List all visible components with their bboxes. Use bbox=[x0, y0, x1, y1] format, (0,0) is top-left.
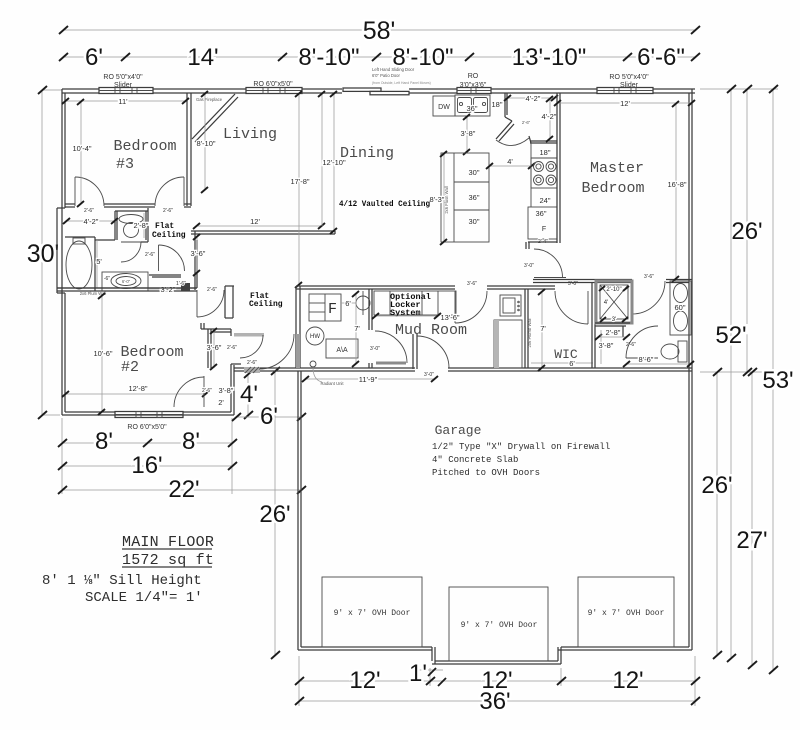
dim 6' horizontal jog bbox=[232, 403, 306, 430]
dim 6' WIC bbox=[531, 359, 593, 368]
top exterior wall bbox=[62, 89, 695, 93]
svg-text:Living: Living bbox=[223, 126, 277, 143]
svg-text:3'-8": 3'-8" bbox=[461, 129, 476, 138]
svg-text:Bedroom: Bedroom bbox=[113, 138, 176, 155]
master toilet bbox=[661, 341, 687, 362]
svg-text:9' x 7' OVH Door: 9' x 7' OVH Door bbox=[588, 609, 665, 618]
svg-text:26': 26' bbox=[731, 218, 762, 245]
svg-text:RO 5'0"x4'0": RO 5'0"x4'0" bbox=[103, 74, 143, 81]
dim 4'-2" pantry horizontal bbox=[504, 94, 558, 103]
svg-text:Slider: Slider bbox=[620, 82, 639, 89]
svg-text:-6": -6" bbox=[104, 276, 110, 282]
svg-text:3'-0": 3'-0" bbox=[370, 346, 380, 352]
svg-text:2x6 Plumb Wall: 2x6 Plumb Wall bbox=[527, 318, 532, 347]
WIC / bath divider wall bbox=[592, 283, 595, 368]
furnace F bbox=[309, 294, 341, 321]
svg-text:#2: #2 bbox=[121, 359, 139, 376]
svg-text:10'-6": 10'-6" bbox=[93, 349, 112, 358]
WIC door bbox=[555, 281, 588, 324]
svg-text:(from Outside, Left Hand Panel: (from Outside, Left Hand Panel Moves) bbox=[372, 81, 431, 85]
bath south wall bbox=[57, 288, 197, 296]
dim 58' top bbox=[59, 17, 700, 45]
svg-text:Dining: Dining bbox=[340, 145, 394, 162]
svg-text:14': 14' bbox=[187, 44, 218, 71]
svg-text:2'-6": 2'-6" bbox=[207, 287, 217, 293]
bedroom2 south exterior wall bbox=[62, 412, 234, 415]
svg-text:RO 5'0"x4'0": RO 5'0"x4'0" bbox=[609, 74, 649, 81]
svg-text:13'-6": 13'-6" bbox=[440, 313, 459, 322]
optional locker system label bbox=[390, 292, 431, 318]
svg-text:4': 4' bbox=[240, 381, 258, 408]
hw tank bbox=[306, 327, 324, 345]
svg-text:30": 30" bbox=[468, 217, 479, 226]
dim 22' bbox=[58, 476, 306, 503]
window master RO 5'0"x4'0" bbox=[597, 88, 653, 94]
svg-text:2'-8": 2'-8" bbox=[606, 328, 621, 337]
dim 26' upper right bbox=[700, 85, 778, 376]
svg-text:3'-6": 3'-6" bbox=[191, 249, 206, 258]
svg-text:16'-8": 16'-8" bbox=[667, 180, 686, 189]
dim 8'-10" fireplace bbox=[196, 91, 215, 193]
dim 16' bbox=[58, 452, 237, 479]
svg-text:1'-6": 1'-6" bbox=[176, 281, 186, 287]
svg-text:27': 27' bbox=[736, 527, 767, 554]
utility door bbox=[370, 331, 407, 363]
svg-text:8'-3": 8'-3" bbox=[430, 195, 445, 204]
dim 10'-6" bedroom2 bbox=[93, 293, 112, 415]
dim 3'-2" bbox=[149, 285, 181, 294]
svg-text:2'-8": 2'-8" bbox=[134, 221, 149, 230]
fridge bbox=[528, 207, 557, 245]
room label bedroom2 bbox=[120, 344, 183, 376]
bath inner door bbox=[121, 242, 141, 262]
floor drain fixture bbox=[356, 291, 370, 315]
svg-text:17'-8": 17'-8" bbox=[290, 177, 309, 186]
right exterior wall bbox=[689, 89, 692, 650]
svg-text:3'-6": 3'-6" bbox=[207, 343, 222, 352]
master south wall bbox=[533, 280, 692, 283]
patio sliding door bbox=[343, 88, 409, 95]
kitchen island bbox=[441, 153, 489, 242]
window living RO 6'0"x5'0" bbox=[246, 88, 302, 94]
svg-text:8': 8' bbox=[95, 428, 113, 455]
garage entry door from mud room bbox=[413, 334, 449, 378]
dim 8'-3" island bbox=[430, 151, 447, 245]
svg-text:6': 6' bbox=[345, 299, 351, 308]
svg-text:10'-4": 10'-4" bbox=[72, 144, 91, 153]
bedroom2 east wall jog bbox=[231, 365, 234, 415]
svg-text:3'-2": 3'-2" bbox=[161, 285, 176, 294]
label RO 5'0x4'0 slider bed3 bbox=[103, 74, 143, 89]
dim 30' left bbox=[27, 86, 62, 419]
toilet (main bath) bbox=[119, 215, 143, 238]
svg-text:22': 22' bbox=[168, 476, 199, 503]
svg-text:12': 12' bbox=[349, 667, 380, 694]
dim 52' right bbox=[715, 85, 746, 662]
left exterior wall bbox=[57, 89, 65, 415]
svg-text:36": 36" bbox=[535, 209, 546, 218]
svg-text:53': 53' bbox=[762, 367, 793, 394]
svg-text:3'0"x3'6": 3'0"x3'6" bbox=[460, 82, 487, 89]
svg-text:4'-2": 4'-2" bbox=[84, 217, 99, 226]
plumbing wall bump bbox=[57, 207, 65, 209]
garage ovh door 2 bbox=[449, 587, 548, 661]
svg-text:5': 5' bbox=[96, 257, 102, 266]
svg-text:8'-10": 8'-10" bbox=[196, 139, 215, 148]
bottom dims 12' 12' 12' bbox=[295, 656, 700, 706]
dim 12' hall bbox=[193, 217, 325, 229]
corridor north wall bbox=[296, 286, 555, 289]
svg-text:1/2" Type "X" Drywall on Firew: 1/2" Type "X" Drywall on Firewall bbox=[432, 442, 610, 452]
svg-text:3'-0": 3'-0" bbox=[424, 372, 434, 378]
svg-text:36": 36" bbox=[466, 104, 477, 113]
dim 2'-8" bbox=[595, 328, 630, 340]
dim 10'-4" bedroom3 bbox=[72, 99, 91, 207]
vanity (main bath) bbox=[102, 272, 148, 291]
svg-text:7': 7' bbox=[354, 324, 360, 333]
svg-text:4" Concrete Slab: 4" Concrete Slab bbox=[432, 455, 518, 465]
svg-text:#3: #3 bbox=[116, 156, 134, 173]
A/A unit bbox=[326, 339, 358, 358]
svg-text:Ceiling: Ceiling bbox=[249, 300, 283, 309]
hall door to bath hallway bbox=[145, 245, 184, 271]
laundry/WIC wall bbox=[525, 289, 532, 368]
label patio door bbox=[372, 67, 431, 85]
svg-text:2': 2' bbox=[218, 398, 224, 407]
svg-text:2'-6": 2'-6" bbox=[163, 208, 173, 214]
svg-text:Slider: Slider bbox=[114, 82, 133, 89]
svg-text:Garage: Garage bbox=[435, 423, 482, 438]
radiant unit bbox=[310, 361, 344, 386]
DW box bbox=[433, 96, 455, 116]
svg-text:18": 18" bbox=[539, 148, 550, 157]
svg-text:26': 26' bbox=[701, 472, 732, 499]
svg-text:2'-6": 2'-6" bbox=[522, 120, 531, 125]
svg-text:26': 26' bbox=[259, 501, 290, 528]
dim 11' bedroom3 bbox=[62, 97, 189, 106]
svg-text:6'0" Patio Door: 6'0" Patio Door bbox=[372, 73, 400, 78]
svg-text:2'-6": 2'-6" bbox=[202, 388, 212, 394]
svg-text:6': 6' bbox=[85, 44, 103, 71]
svg-text:13'-10": 13'-10" bbox=[512, 44, 586, 71]
toilet room walls bbox=[595, 323, 630, 337]
svg-text:Mud Room: Mud Room bbox=[395, 322, 467, 339]
garage west wall bbox=[298, 371, 301, 650]
garage notes bbox=[432, 442, 610, 478]
dim 26' garage left bbox=[259, 367, 290, 659]
svg-text:8': 8' bbox=[182, 428, 200, 455]
dim 6' furnace bbox=[341, 299, 356, 308]
dim row: 6' 14' 8'-10" 8'-10" 13'-10" 6'-6" bbox=[59, 44, 700, 71]
dim 13'-6" mud room bbox=[372, 313, 460, 322]
svg-text:52': 52' bbox=[715, 322, 746, 349]
room label master bedroom bbox=[581, 160, 644, 197]
window kitchen RO 3'0"x3'6" bbox=[457, 88, 491, 94]
master vanity bbox=[670, 281, 691, 335]
svg-text:12': 12' bbox=[620, 99, 630, 108]
svg-text:7': 7' bbox=[540, 324, 546, 333]
svg-text:6'-0": 6'-0" bbox=[122, 279, 131, 284]
linen nook bbox=[149, 275, 190, 291]
bath top walls / toilet alcove bbox=[95, 208, 148, 242]
bedroom3 east wall bbox=[187, 93, 191, 206]
bedroom2 door 2 bbox=[174, 376, 212, 407]
dim 12'-8" bedroom2 bbox=[62, 384, 209, 397]
svg-text:Flat: Flat bbox=[155, 222, 174, 231]
kitchen right counter run bbox=[531, 143, 557, 207]
bedroom2 closet bbox=[201, 323, 264, 368]
svg-text:Ceiling: Ceiling bbox=[152, 231, 186, 240]
svg-text:12'-8": 12'-8" bbox=[128, 384, 147, 393]
kitchen sink bbox=[455, 95, 490, 116]
dim 1' garage jog bbox=[409, 660, 446, 687]
svg-text:Pitched to OVH Doors: Pitched to OVH Doors bbox=[432, 468, 540, 478]
dim 3'-6" hall bbox=[191, 234, 206, 276]
bedroom3 door left bbox=[75, 177, 104, 206]
svg-text:60": 60" bbox=[674, 303, 685, 312]
dim 4' island-stove bbox=[486, 157, 535, 169]
master bath door bbox=[632, 274, 665, 314]
svg-text:Left Hand Sliding Door: Left Hand Sliding Door bbox=[372, 67, 415, 72]
label RO 5'0x4'0 slider master bbox=[609, 74, 649, 89]
svg-text:9' x 7' OVH Door: 9' x 7' OVH Door bbox=[334, 609, 411, 618]
flat ceiling label 2 bbox=[249, 292, 283, 309]
dim 5' tub bbox=[96, 240, 102, 288]
svg-text:2'-6": 2'-6" bbox=[247, 360, 257, 366]
svg-text:3'-6": 3'-6" bbox=[467, 281, 477, 287]
bedroom3 door right bbox=[155, 177, 184, 206]
dim 26' lower right bbox=[701, 368, 732, 659]
svg-text:24": 24" bbox=[539, 196, 550, 205]
svg-text:Master: Master bbox=[590, 160, 644, 177]
svg-text:6': 6' bbox=[260, 403, 278, 430]
svg-text:8'-10": 8'-10" bbox=[298, 44, 359, 71]
bedroom3 south wall bbox=[65, 204, 191, 207]
mud room closet door bbox=[455, 281, 487, 323]
svg-text:16': 16' bbox=[131, 452, 162, 479]
living south wall bbox=[191, 231, 335, 234]
svg-text:System: System bbox=[390, 308, 421, 318]
svg-text:36": 36" bbox=[468, 193, 479, 202]
svg-text:3'-8": 3'-8" bbox=[599, 341, 614, 350]
svg-text:30": 30" bbox=[468, 168, 479, 177]
svg-text:A\A: A\A bbox=[336, 347, 348, 354]
label RO 3'0x3'6 kitchen bbox=[460, 73, 487, 89]
tub bbox=[65, 237, 95, 291]
dim 3'-8" 2' bed2 door bbox=[218, 386, 234, 407]
flat ceiling label 1 bbox=[152, 222, 186, 240]
corner pantry bbox=[496, 93, 557, 146]
svg-text:F: F bbox=[328, 301, 337, 318]
shower bbox=[596, 281, 632, 323]
svg-text:3'-8": 3'-8" bbox=[219, 386, 234, 395]
svg-text:58': 58' bbox=[363, 17, 396, 45]
dim 7' WIC bbox=[538, 289, 546, 371]
dim 16'-8" master bbox=[667, 101, 686, 282]
dim 17'-8" living bbox=[290, 91, 309, 288]
garage south wall with door bays bbox=[298, 647, 692, 664]
svg-text:11': 11' bbox=[118, 97, 128, 106]
svg-text:30': 30' bbox=[27, 240, 60, 268]
dim 4' vertical jog bbox=[240, 370, 258, 419]
svg-text:12': 12' bbox=[250, 217, 260, 226]
dim 27' lower right bbox=[736, 368, 767, 669]
master west wall bbox=[526, 93, 560, 249]
washer dryer stack bbox=[494, 295, 522, 368]
hall door near utility bbox=[247, 334, 294, 369]
svg-text:3': 3' bbox=[612, 317, 616, 323]
svg-text:8' 1 ⅛" Sill Height: 8' 1 ⅛" Sill Height bbox=[42, 573, 202, 589]
dim 11'-9" bbox=[302, 375, 438, 384]
svg-text:6': 6' bbox=[569, 359, 575, 368]
svg-text:Bedroom: Bedroom bbox=[581, 180, 644, 197]
dim 4'-2" pantry vertical bbox=[542, 96, 557, 142]
master entry door bbox=[524, 249, 566, 278]
dim 4'-2" bath bbox=[63, 217, 118, 226]
svg-text:6'-6": 6'-6" bbox=[637, 44, 685, 71]
svg-text:RO: RO bbox=[468, 73, 479, 80]
dim 8' 8' left bottom bbox=[58, 374, 301, 494]
svg-text:Radiant Unit: Radiant Unit bbox=[320, 381, 344, 386]
svg-text:18": 18" bbox=[491, 100, 502, 109]
svg-text:2'-6": 2'-6" bbox=[227, 345, 237, 351]
gas fireplace diagonal bbox=[192, 94, 238, 142]
locker bench bbox=[374, 291, 456, 315]
bedroom2 north wall bbox=[57, 286, 234, 318]
dim 3'-8" below sink bbox=[461, 114, 476, 155]
svg-text:SCALE 1/4"= 1': SCALE 1/4"= 1' bbox=[85, 590, 203, 606]
dim 36' bottom bbox=[295, 688, 700, 715]
svg-text:36': 36' bbox=[479, 688, 510, 715]
toilet room door bbox=[626, 326, 658, 358]
svg-text:4': 4' bbox=[604, 300, 608, 306]
svg-text:2'-10": 2'-10" bbox=[606, 287, 621, 293]
utility west wall bbox=[296, 286, 300, 368]
svg-text:2'-6": 2'-6" bbox=[84, 208, 94, 214]
hatched threshold near bedroom2 hall bbox=[244, 367, 260, 373]
svg-text:9' x 7' OVH Door: 9' x 7' OVH Door bbox=[461, 621, 538, 630]
utility east wall bbox=[369, 289, 372, 368]
svg-text:DW: DW bbox=[438, 104, 450, 111]
dim 3'-8" bbox=[599, 330, 637, 364]
garage ovh door 1 bbox=[322, 577, 422, 647]
svg-text:F: F bbox=[542, 226, 546, 233]
svg-text:11'-9": 11'-9" bbox=[359, 375, 378, 384]
svg-text:12': 12' bbox=[612, 667, 643, 694]
svg-text:4/12 Vaulted Ceiling: 4/12 Vaulted Ceiling bbox=[339, 199, 430, 209]
dim 7' utility bbox=[352, 291, 360, 367]
dim 8'-6" bbox=[623, 355, 694, 367]
svg-text:2x6 Flush Wall: 2x6 Flush Wall bbox=[444, 186, 449, 213]
svg-text:3'-0": 3'-0" bbox=[524, 263, 534, 269]
garage ovh door 3 bbox=[578, 577, 674, 647]
hall to garage south wall bbox=[234, 368, 692, 371]
dim 3'-6" closet bbox=[207, 328, 238, 370]
dim 12' master bbox=[554, 99, 695, 108]
dim 53' right bbox=[762, 85, 793, 674]
svg-text:1': 1' bbox=[409, 660, 427, 687]
dim 2'-8" toilet alcove bbox=[134, 213, 149, 238]
bedroom2 entry door bbox=[197, 287, 224, 317]
svg-text:4'-2": 4'-2" bbox=[542, 112, 557, 121]
svg-text:4': 4' bbox=[507, 157, 513, 166]
dim 12'-10" dining bbox=[318, 91, 346, 234]
svg-text:HW: HW bbox=[310, 334, 320, 340]
stove bbox=[531, 148, 557, 205]
svg-text:8'-6": 8'-6" bbox=[639, 355, 654, 364]
svg-text:3'-6": 3'-6" bbox=[644, 274, 654, 280]
svg-text:4'-2": 4'-2" bbox=[526, 94, 541, 103]
room label bedroom3 bbox=[113, 138, 176, 173]
svg-text:RO 6'0"x5'0": RO 6'0"x5'0" bbox=[253, 81, 293, 88]
svg-text:Gas Fireplace: Gas Fireplace bbox=[196, 97, 223, 102]
svg-text:RO 6'0"x5'0": RO 6'0"x5'0" bbox=[127, 424, 167, 431]
bath hall east wall bbox=[195, 231, 197, 290]
window bedroom2 RO 6'0"x5'0" bbox=[115, 412, 183, 418]
svg-text:2'-6": 2'-6" bbox=[145, 252, 155, 258]
window bedroom3 RO 5'0"x4'0" bbox=[99, 88, 153, 94]
